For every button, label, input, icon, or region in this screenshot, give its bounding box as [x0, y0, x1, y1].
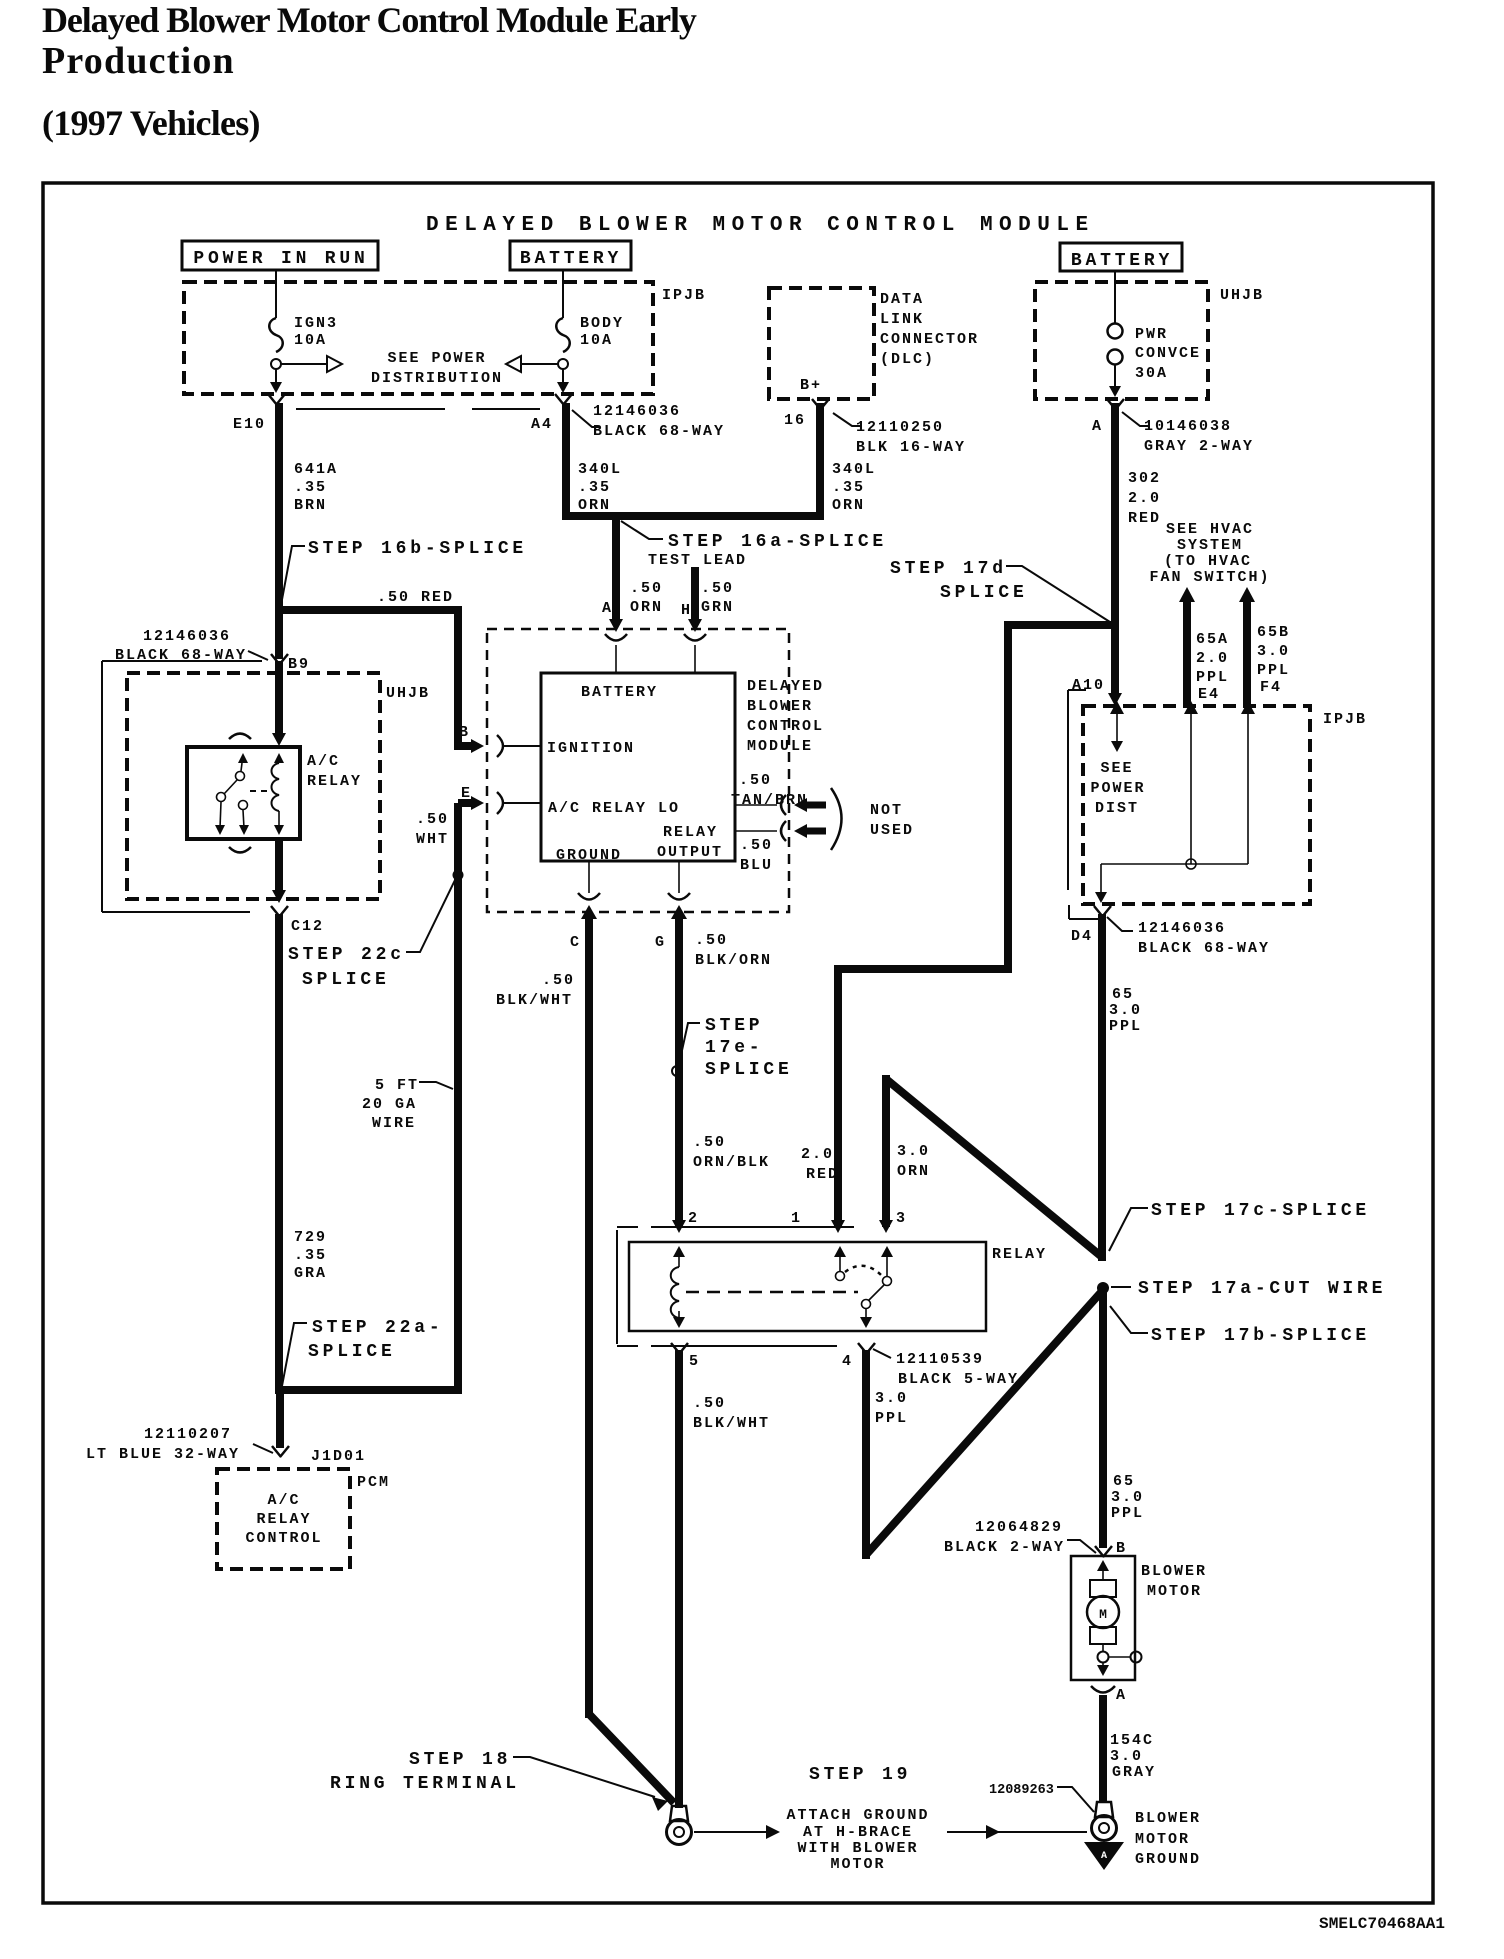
svg-text:POWER: POWER — [1090, 780, 1145, 797]
svg-text:DATA: DATA — [880, 291, 924, 308]
svg-text:.50: .50 — [739, 772, 772, 789]
connector A blower — [1091, 1686, 1115, 1693]
relay mech link dashed — [686, 1291, 858, 1294]
svg-text:GRAY: GRAY — [1112, 1764, 1156, 1781]
svg-text:CONNECTOR: CONNECTOR — [880, 331, 979, 348]
connector bracket IPJB right — [1068, 689, 1086, 691]
svg-text:17e-: 17e- — [705, 1038, 763, 1058]
label STEP 17e-SPLICE — [679, 1023, 700, 1064]
wire ground C .50 BLK/WHT — [581, 905, 597, 919]
svg-text:G: G — [655, 934, 666, 951]
connector pin5 — [671, 1343, 688, 1354]
module pin A connector — [605, 634, 627, 641]
A/C relay internals — [238, 753, 248, 763]
module pin G connector — [678, 861, 680, 893]
svg-text:UHJB: UHJB — [386, 685, 430, 702]
connector A4 — [555, 394, 572, 405]
svg-text:641A: 641A — [294, 461, 338, 478]
splice 22a junction wire — [275, 1386, 462, 1394]
svg-text:302: 302 — [1128, 470, 1161, 487]
svg-text:3.0: 3.0 — [1257, 643, 1290, 660]
svg-text:PPL: PPL — [1196, 669, 1229, 686]
label STEP 22c SPLICE — [406, 878, 456, 952]
svg-text:DISTRIBUTION: DISTRIBUTION — [371, 370, 503, 387]
svg-text:154C: 154C — [1110, 1732, 1154, 1749]
svg-text:STEP 22c: STEP 22c — [288, 945, 405, 965]
svg-text:2: 2 — [688, 1210, 699, 1227]
connector B blower — [1095, 1546, 1112, 1557]
svg-text:10A: 10A — [294, 332, 327, 349]
svg-text:4: 4 — [842, 1353, 853, 1370]
module pin H connector — [684, 634, 706, 641]
svg-text:12146036: 12146036 — [143, 628, 231, 645]
svg-text:3.0: 3.0 — [897, 1143, 930, 1160]
wire relay output G .50 BLK/ORN — [671, 905, 687, 919]
wire 65A to HVAC — [1179, 587, 1195, 602]
wire .50 WHT to pin E — [458, 799, 475, 807]
wire .50 BLK/WHT pin5 to ring — [675, 1350, 683, 1808]
DLC dashed box — [769, 288, 874, 399]
wire 65 3.0 PPL to blower — [1099, 1290, 1107, 1548]
svg-text:65A: 65A — [1196, 631, 1229, 648]
svg-text:WITH BLOWER: WITH BLOWER — [797, 1840, 918, 1857]
svg-text:BLACK 68-WAY: BLACK 68-WAY — [1138, 940, 1270, 957]
svg-text:SEE: SEE — [1100, 760, 1133, 777]
svg-text:20 GA: 20 GA — [362, 1096, 417, 1113]
svg-text:3: 3 — [896, 1210, 907, 1227]
svg-text:AT H-BRACE: AT H-BRACE — [803, 1824, 913, 1841]
svg-text:A/C RELAY LO: A/C RELAY LO — [548, 800, 680, 817]
svg-text:ORN/BLK: ORN/BLK — [693, 1154, 770, 1171]
relay contact arc — [845, 1266, 884, 1278]
splice dot 17a — [1097, 1282, 1109, 1294]
svg-text:FAN SWITCH): FAN SWITCH) — [1149, 569, 1270, 586]
svg-text:.50: .50 — [701, 580, 734, 597]
svg-text:340L: 340L — [578, 461, 622, 478]
svg-text:E4: E4 — [1198, 686, 1220, 703]
label 12064829 BLACK 2-WAY — [1067, 1540, 1096, 1553]
blower motor box — [1071, 1556, 1135, 1680]
svg-text:IPJB: IPJB — [662, 287, 706, 304]
svg-text:.35: .35 — [832, 479, 865, 496]
svg-text:MOTOR: MOTOR — [1147, 1583, 1202, 1600]
svg-text:CONVCE: CONVCE — [1135, 345, 1201, 362]
svg-text:STEP 16a-SPLICE: STEP 16a-SPLICE — [668, 532, 887, 552]
svg-text:10A: 10A — [580, 332, 613, 349]
svg-text:.35: .35 — [578, 479, 611, 496]
relay connector line top — [651, 1226, 854, 1228]
svg-text:Delayed Blower Motor Control M: Delayed Blower Motor Control Module Earl… — [42, 0, 697, 40]
svg-text:GRAY 2-WAY: GRAY 2-WAY — [1144, 438, 1254, 455]
not used pin 2 — [735, 830, 777, 832]
svg-text:1: 1 — [791, 1210, 802, 1227]
svg-text:(1997 Vehicles): (1997 Vehicles) — [42, 103, 260, 143]
connector arc below A/C relay — [229, 847, 251, 853]
svg-text:.50: .50 — [693, 1134, 726, 1151]
svg-text:.35: .35 — [294, 479, 327, 496]
svg-text:SPLICE: SPLICE — [705, 1060, 793, 1080]
IPJB fuse block dashed box — [184, 282, 653, 394]
svg-text:BRN: BRN — [294, 497, 327, 514]
svg-text:STEP 17d: STEP 17d — [890, 559, 1007, 579]
svg-text:STEP 19: STEP 19 — [809, 1765, 911, 1785]
svg-text:(DLC): (DLC) — [880, 351, 935, 368]
svg-text:RELAY: RELAY — [663, 824, 718, 841]
svg-text:A: A — [602, 600, 613, 617]
arrow from ring to text — [694, 1831, 766, 1833]
svg-text:DELAYED: DELAYED — [747, 678, 824, 695]
svg-text:BLK/WHT: BLK/WHT — [496, 992, 573, 1009]
svg-text:TEST LEAD: TEST LEAD — [648, 552, 747, 569]
svg-text:ORN: ORN — [630, 599, 663, 616]
label 12110250 BLK 16-WAY — [833, 413, 860, 426]
relay contact pin 1 — [834, 1246, 846, 1257]
wire 340L .35 ORN (A4) — [562, 403, 570, 520]
svg-text:RED: RED — [806, 1166, 839, 1183]
svg-text:BLACK 2-WAY: BLACK 2-WAY — [944, 1539, 1065, 1556]
box POWER IN RUN — [182, 241, 378, 270]
svg-text:PPL: PPL — [1109, 1018, 1142, 1035]
svg-text:IGN3: IGN3 — [294, 315, 338, 332]
svg-text:DIST: DIST — [1095, 800, 1139, 817]
svg-text:BATTERY: BATTERY — [1071, 251, 1173, 271]
svg-text:MOTOR: MOTOR — [1135, 1831, 1190, 1848]
svg-text:C: C — [570, 934, 581, 951]
svg-text:BLACK 5-WAY: BLACK 5-WAY — [898, 1371, 1019, 1388]
svg-text:TAN/BRN: TAN/BRN — [731, 792, 808, 809]
svg-text:ORN: ORN — [578, 497, 611, 514]
svg-text:POWER IN RUN: POWER IN RUN — [193, 249, 368, 269]
svg-text:ORN: ORN — [832, 497, 865, 514]
svg-text:USED: USED — [870, 822, 914, 839]
svg-text:DELAYED BLOWER MOTOR CONTROL M: DELAYED BLOWER MOTOR CONTROL MODULE — [426, 214, 1095, 237]
label STEP 17d SPLICE — [1006, 566, 1110, 622]
svg-text:12110539: 12110539 — [896, 1351, 984, 1368]
connector 16 (DLC) — [812, 399, 829, 410]
relay switch blade — [869, 1285, 884, 1300]
wire 641A .35 BRN (E10) — [275, 403, 283, 659]
svg-text:BLOWER: BLOWER — [1135, 1810, 1201, 1827]
relay connector bracket — [617, 1226, 638, 1228]
internal bus E4 F4 to D4 — [1190, 714, 1192, 864]
connector arc above A/C relay — [229, 734, 251, 740]
svg-text:3.0: 3.0 — [875, 1390, 908, 1407]
svg-text:PCM: PCM — [357, 1474, 390, 1491]
splice 16b wire .50 RED — [275, 606, 458, 614]
svg-text:BATTERY: BATTERY — [520, 249, 622, 269]
UHJB dashed box right — [1035, 282, 1208, 399]
svg-text:SYSTEM: SYSTEM — [1177, 537, 1243, 554]
svg-text:A: A — [1101, 1851, 1107, 1862]
svg-text:.50: .50 — [542, 972, 575, 989]
arrow see power distribution right — [522, 363, 558, 365]
svg-text:340L: 340L — [832, 461, 876, 478]
connector D4 — [1094, 906, 1111, 917]
svg-text:IGNITION: IGNITION — [547, 740, 635, 757]
splice 16a bus wire — [562, 512, 824, 520]
svg-text:RELAY: RELAY — [256, 1511, 311, 1528]
svg-text:5: 5 — [689, 1353, 700, 1370]
wire .50 ORN to module pin A — [612, 516, 620, 622]
svg-text:BLOWER: BLOWER — [1141, 1563, 1207, 1580]
label 10146038 GRAY 2-WAY — [1122, 412, 1148, 426]
wire ground C diagonal to ring — [589, 1714, 674, 1803]
wire 729 .35 GRA — [275, 914, 283, 1394]
svg-text:SEE HVAC: SEE HVAC — [1166, 521, 1254, 538]
svg-text:RELAY: RELAY — [307, 773, 362, 790]
wire 65B to HVAC — [1239, 587, 1255, 602]
fuse BODY 10A — [562, 270, 564, 318]
label STEP 17b-SPLICE — [1110, 1306, 1148, 1333]
svg-text:D4: D4 — [1071, 928, 1093, 945]
wire B9 into relay — [275, 661, 283, 737]
fuse IGN3 10A — [275, 270, 277, 318]
svg-text:SPLICE: SPLICE — [940, 583, 1028, 603]
svg-text:3.0: 3.0 — [1110, 1748, 1143, 1765]
label STEP 22a-SPLICE — [282, 1323, 307, 1386]
arrow to blower ground — [947, 1831, 1087, 1833]
wire 340L from DLC — [816, 403, 824, 520]
relay connector line bottom — [651, 1345, 837, 1347]
svg-text:C12: C12 — [291, 918, 324, 935]
svg-text:A10: A10 — [1072, 677, 1105, 694]
svg-text:A/C: A/C — [307, 753, 340, 770]
svg-text:3.0: 3.0 — [1109, 1002, 1142, 1019]
svg-text:J1D01: J1D01 — [311, 1448, 366, 1465]
svg-text:H: H — [681, 602, 692, 619]
module dashed boundary — [487, 629, 789, 912]
delayed blower control module box — [541, 673, 735, 861]
svg-text:RED: RED — [1128, 510, 1161, 527]
svg-text:10146038: 10146038 — [1144, 418, 1232, 435]
svg-text:.50: .50 — [416, 811, 449, 828]
ring terminal 1 — [670, 1806, 688, 1821]
circuit breaker PWR CONVCE 30A — [1114, 271, 1116, 323]
svg-text:STEP 22a-: STEP 22a- — [312, 1318, 443, 1338]
wire diagonal 17b to relay pin 4 — [865, 1290, 1103, 1556]
wire A to A10 — [1111, 625, 1119, 697]
wire splice 17d to relay pin 1 — [838, 625, 1115, 1227]
svg-text:BODY: BODY — [580, 315, 624, 332]
svg-text:5 FT: 5 FT — [375, 1077, 419, 1094]
see power dist arrow — [1116, 714, 1118, 742]
svg-text:CONTROL: CONTROL — [245, 1530, 322, 1547]
relay coil — [673, 1246, 685, 1257]
label 12146036 BLACK 68-WAY (B9) — [248, 651, 268, 660]
svg-text:STEP: STEP — [705, 1016, 763, 1036]
connector pin4 — [858, 1343, 875, 1354]
svg-text:A: A — [1116, 1687, 1127, 1704]
wire 65 3.0 PPL upper — [1098, 914, 1106, 1261]
svg-text:2.0: 2.0 — [1128, 490, 1161, 507]
label 12146036 BLACK 68-WAY (D4) — [1107, 917, 1133, 931]
svg-text:GROUND: GROUND — [1135, 1851, 1201, 1868]
label STEP 16a-SPLICE — [621, 521, 663, 539]
arrow see power distribution left — [281, 363, 326, 365]
svg-text:BLOWER: BLOWER — [747, 698, 813, 715]
wire 3.0 ORN vertical — [882, 1075, 890, 1227]
svg-text:(TO HVAC: (TO HVAC — [1164, 553, 1252, 570]
svg-text:SEE POWER: SEE POWER — [387, 350, 486, 367]
svg-text:STEP 17c-SPLICE: STEP 17c-SPLICE — [1151, 1201, 1370, 1221]
svg-text:65: 65 — [1113, 1473, 1135, 1490]
splice dot 22c — [453, 870, 464, 881]
relay pin arrowheads top — [672, 1220, 686, 1233]
svg-text:12089263: 12089263 — [989, 1783, 1054, 1798]
svg-text:SPLICE: SPLICE — [308, 1342, 396, 1362]
svg-text:BLU: BLU — [740, 857, 773, 874]
svg-text:.50: .50 — [630, 580, 663, 597]
svg-text:GRN: GRN — [701, 599, 734, 616]
svg-text:12146036: 12146036 — [593, 403, 681, 420]
svg-text:.35: .35 — [294, 1247, 327, 1264]
connector A (gray 2-way) — [1107, 399, 1124, 410]
svg-text:WHT: WHT — [416, 831, 449, 848]
IPJB dashed box right — [1083, 706, 1310, 904]
svg-text:STEP 17a-CUT WIRE: STEP 17a-CUT WIRE — [1138, 1279, 1386, 1299]
connector bracket UHJB left — [102, 660, 262, 662]
svg-text:2.0: 2.0 — [801, 1146, 834, 1163]
svg-text:B9: B9 — [288, 656, 310, 673]
svg-text:E10: E10 — [233, 416, 266, 433]
box BATTERY left — [510, 241, 631, 270]
wire to PCM — [276, 1390, 284, 1448]
ring terminal 2 — [1095, 1802, 1113, 1817]
svg-text:B: B — [1116, 1540, 1127, 1557]
svg-text:BLK 16-WAY: BLK 16-WAY — [856, 439, 966, 456]
svg-text:2.0: 2.0 — [1196, 650, 1229, 667]
wire 3.0 ORN diagonal to splice 17c — [886, 1079, 1102, 1257]
svg-text:.50 RED: .50 RED — [377, 589, 454, 606]
svg-text:3.0: 3.0 — [1111, 1489, 1144, 1506]
splice 17e circle — [672, 1066, 682, 1076]
svg-text:MODULE: MODULE — [747, 738, 813, 755]
svg-text:B+: B+ — [800, 377, 822, 394]
svg-text:BLACK 68-WAY: BLACK 68-WAY — [593, 423, 725, 440]
ground symbol blower motor — [1084, 1842, 1124, 1870]
svg-text:STEP 16b-SPLICE: STEP 16b-SPLICE — [308, 539, 527, 559]
svg-text:LINK: LINK — [880, 311, 924, 328]
svg-text:WIRE: WIRE — [372, 1115, 416, 1132]
svg-text:SMELC70468AA1: SMELC70468AA1 — [1319, 1915, 1445, 1933]
connector line E10-A4 — [296, 408, 445, 410]
svg-text:BLK/WHT: BLK/WHT — [693, 1415, 770, 1432]
label STEP 17a-CUT WIRE — [1111, 1286, 1131, 1288]
label 12110207 LT BLUE 32-WAY — [253, 1444, 273, 1453]
wire 302 2.0 RED — [1111, 403, 1119, 629]
svg-text:BATTERY: BATTERY — [581, 684, 658, 701]
svg-text:MOTOR: MOTOR — [830, 1856, 885, 1873]
svg-text:SPLICE: SPLICE — [302, 970, 390, 990]
svg-text:.50: .50 — [740, 837, 773, 854]
label 12146036 BLACK 68-WAY (A4) — [572, 410, 600, 427]
wire .50 WHT 5FT 20GA — [454, 803, 462, 1394]
UHJB dashed box left — [127, 673, 380, 899]
connector B9 — [271, 654, 288, 665]
svg-text:PPL: PPL — [1111, 1505, 1144, 1522]
not used pin 1 — [735, 804, 777, 806]
label 12110539 BLACK 5-WAY — [873, 1349, 891, 1358]
svg-text:.50: .50 — [693, 1395, 726, 1412]
svg-text:BLK/ORN: BLK/ORN — [695, 952, 772, 969]
svg-text:PWR: PWR — [1135, 326, 1168, 343]
svg-text:CONTROL: CONTROL — [747, 718, 824, 735]
A/C relay coil — [272, 763, 280, 811]
brace NOT USED — [831, 788, 842, 850]
svg-text:E: E — [461, 785, 472, 802]
svg-text:A: A — [1092, 418, 1103, 435]
svg-text:M: M — [1099, 1607, 1107, 1622]
svg-text:UHJB: UHJB — [1220, 287, 1264, 304]
svg-text:65: 65 — [1112, 986, 1134, 1003]
svg-text:12064829: 12064829 — [975, 1519, 1063, 1536]
label STEP 17c-SPLICE — [1109, 1208, 1148, 1251]
svg-text:B: B — [459, 724, 470, 741]
svg-text:GRA: GRA — [294, 1265, 327, 1282]
label 5 FT 20 GA WIRE — [419, 1082, 453, 1089]
svg-text:RELAY: RELAY — [992, 1246, 1047, 1263]
svg-text:729: 729 — [294, 1229, 327, 1246]
box BATTERY right — [1060, 243, 1182, 271]
svg-text:12146036: 12146036 — [1138, 920, 1226, 937]
blower motor internals — [1097, 1560, 1109, 1571]
relay box — [629, 1242, 986, 1331]
pin arrows into IPJB — [1110, 701, 1124, 714]
PCM dashed box — [217, 1469, 350, 1569]
wire 154C 3.0 GRAY — [1099, 1695, 1107, 1802]
svg-text:PPL: PPL — [875, 1410, 908, 1427]
svg-text:RING TERMINAL: RING TERMINAL — [330, 1774, 520, 1794]
svg-text:12110207: 12110207 — [144, 1426, 232, 1443]
svg-text:A4: A4 — [531, 416, 553, 433]
svg-text:.50: .50 — [695, 932, 728, 949]
wire C12 — [275, 839, 283, 895]
svg-text:IPJB: IPJB — [1323, 711, 1367, 728]
svg-text:NOT: NOT — [870, 802, 903, 819]
svg-text:12110250: 12110250 — [856, 419, 944, 436]
svg-text:16: 16 — [784, 412, 806, 429]
svg-text:STEP 18: STEP 18 — [409, 1750, 511, 1770]
svg-text:65B: 65B — [1257, 624, 1290, 641]
connector J1D01 — [272, 1446, 289, 1457]
svg-text:PPL: PPL — [1257, 662, 1290, 679]
module pin C connector — [588, 861, 590, 893]
svg-text:Production: Production — [42, 40, 235, 82]
wire .50 RED to pin B — [458, 606, 475, 746]
label 12089263 — [1057, 1787, 1094, 1812]
svg-text:F4: F4 — [1260, 679, 1282, 696]
svg-text:A/C: A/C — [267, 1492, 300, 1509]
svg-text:LT BLUE 32-WAY: LT BLUE 32-WAY — [86, 1446, 240, 1463]
wire 3.0 PPL pin4 — [862, 1350, 870, 1559]
svg-text:OUTPUT: OUTPUT — [657, 844, 723, 861]
svg-text:STEP 17b-SPLICE: STEP 17b-SPLICE — [1151, 1326, 1370, 1346]
svg-text:ATTACH GROUND: ATTACH GROUND — [786, 1807, 929, 1824]
label STEP 16b-SPLICE — [281, 546, 305, 605]
relay contact pin 3 — [881, 1246, 893, 1257]
connector E10 — [268, 394, 285, 405]
A/C relay box — [187, 747, 300, 839]
svg-text:30A: 30A — [1135, 365, 1168, 382]
svg-text:ORN: ORN — [897, 1163, 930, 1180]
